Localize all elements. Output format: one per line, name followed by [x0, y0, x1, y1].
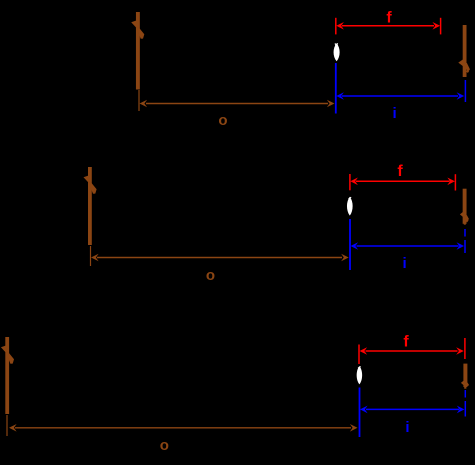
- svg-text:o: o: [160, 437, 169, 454]
- svg-text:f: f: [397, 163, 403, 180]
- focal extension tick right row3: [464, 338, 466, 359]
- lens L1 tip marks: [335, 43, 338, 45]
- object arrow O2 head right wedge: [90, 181, 97, 193]
- lens L3 tip marks: [358, 367, 361, 369]
- lens L2: [347, 197, 353, 216]
- image arrow I2 head left wedge: [460, 212, 463, 218]
- focal dimension f right arrowhead row2: [447, 178, 455, 186]
- object arrow O3 shaft: [5, 337, 9, 414]
- object arrow O2 shaft: [88, 167, 92, 245]
- dimension i right arrowhead row1: [457, 92, 465, 100]
- svg-text:o: o: [218, 112, 227, 129]
- dimension o left arrowhead row3: [9, 424, 17, 432]
- image arrow I1 shaft: [463, 25, 467, 77]
- lens axis line row1: [335, 63, 337, 114]
- object arrow O1 head right wedge: [138, 26, 145, 38]
- object arrow O3 head left wedge: [1, 345, 7, 353]
- focal dimension f left arrowhead row2: [350, 178, 358, 186]
- image arrow I1 head foot: [467, 70, 468, 72]
- dimension o left arrowhead row1: [140, 100, 148, 108]
- image extension dashed line row2: [464, 229, 466, 237]
- focal dimension f right arrowhead row1: [433, 22, 441, 30]
- focal extension tick left row3: [358, 345, 360, 365]
- object arrow O1 head left wedge: [131, 20, 137, 28]
- focal extension tick right row1: [440, 18, 442, 35]
- svg-text:i: i: [393, 105, 397, 122]
- object extension tick row2: [90, 246, 92, 266]
- image arrow I3 tail: [464, 387, 466, 389]
- focal dimension f left arrowhead row1: [336, 22, 344, 30]
- dimension o left arrowhead row2: [91, 254, 99, 262]
- dimension i left arrowhead row1: [336, 92, 344, 100]
- svg-text:i: i: [405, 419, 409, 436]
- image extension dashed line row2 part2: [464, 240, 466, 253]
- dimension i left arrowhead row3: [360, 406, 368, 414]
- object arrow O3 head right wedge: [8, 351, 15, 363]
- dimension i right arrowhead row3: [457, 406, 465, 414]
- dimension o line row3: [15, 427, 351, 429]
- lens L1: [334, 43, 340, 61]
- object extension tick row3: [6, 415, 8, 436]
- lens axis line row2: [349, 219, 351, 270]
- object extension tick row1: [138, 90, 140, 111]
- image arrow I3 head right band: [467, 383, 469, 386]
- focal dimension f line row2: [356, 180, 450, 182]
- dimension o right arrowhead row1: [327, 100, 335, 108]
- lens L3: [357, 366, 362, 384]
- dimension i left arrowhead row2: [351, 242, 359, 250]
- object arrow O1 shaft: [136, 12, 140, 90]
- focal dimension f line row1: [342, 25, 434, 27]
- dimension i right arrowhead row2: [457, 242, 465, 250]
- image arrow I3 shaft: [463, 364, 467, 387]
- image extension dashed line row3: [464, 390, 466, 398]
- lens L2 tip marks: [349, 197, 352, 199]
- svg-text:f: f: [386, 10, 392, 27]
- image extension dashed line row3 part2: [464, 401, 466, 417]
- image arrow I2 head foot: [466, 220, 467, 222]
- focal extension tick left row1: [335, 18, 337, 35]
- focal dimension f line row3: [366, 350, 458, 352]
- image arrow I1 head right band: [466, 64, 469, 71]
- focal dimension f right arrowhead row3: [456, 347, 464, 355]
- image extension line row1: [464, 80, 466, 102]
- focal extension tick right row2: [454, 174, 456, 190]
- svg-text:f: f: [403, 334, 409, 351]
- lens axis line row3: [359, 388, 361, 438]
- dimension o line row2: [97, 257, 342, 259]
- dimension o right arrowhead row3: [350, 424, 358, 432]
- svg-text:o: o: [206, 267, 215, 284]
- focal dimension f left arrowhead row3: [360, 347, 368, 355]
- focal extension tick left row2: [349, 174, 351, 190]
- dimension i line row1: [342, 95, 458, 97]
- svg-text:i: i: [403, 255, 407, 272]
- image arrow I2 shaft: [463, 189, 467, 224]
- image arrow I1 head left wedge: [458, 59, 463, 66]
- image arrow I3 head left wedge: [461, 380, 464, 386]
- dimension i line row3: [366, 408, 459, 410]
- image arrow I2 tail: [464, 224, 466, 225]
- object arrow O2 head left wedge: [84, 175, 90, 183]
- image arrow I2 head right band: [466, 216, 468, 220]
- dimension i line row2: [357, 245, 459, 247]
- dimension o right arrowhead row2: [341, 254, 349, 262]
- dimension o line row1: [146, 103, 328, 105]
